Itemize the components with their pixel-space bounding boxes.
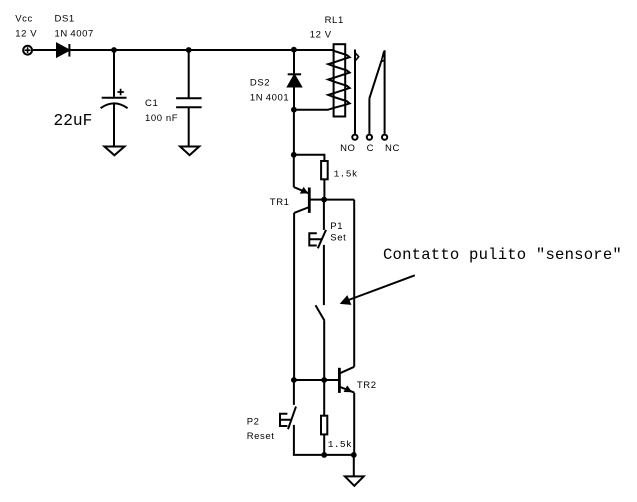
annotation arrow to sensor contact xyxy=(340,275,415,305)
ground (22uF) xyxy=(104,147,124,156)
svg-text:NC: NC xyxy=(385,143,400,154)
terminal C xyxy=(367,135,372,140)
wire right rail down to TR2 collector xyxy=(353,200,355,367)
node junction TR2 emitter / bottom rail xyxy=(351,452,357,458)
relay contact C arm (moving blade) xyxy=(369,51,384,134)
terminal NC xyxy=(382,135,387,140)
svg-text:TR2: TR2 xyxy=(357,380,377,391)
wire TR2 emitter down xyxy=(353,393,355,455)
wire base node to right rail xyxy=(324,199,354,201)
svg-text:1.5k: 1.5k xyxy=(328,439,352,450)
wire Vcc to DS1 xyxy=(32,49,57,51)
wire sensor contact to TR2 base node xyxy=(323,321,325,381)
svg-text:DS2: DS2 xyxy=(250,77,270,88)
svg-text:TR1: TR1 xyxy=(270,197,290,208)
diode DS2 xyxy=(288,74,301,86)
svg-text:100 nF: 100 nF xyxy=(145,113,178,124)
node junction V+ / TR1 emitter / R1 xyxy=(291,152,297,158)
wire P1 to sensor contact xyxy=(323,245,325,305)
svg-text:12 V: 12 V xyxy=(310,30,332,41)
relay RL1 coil xyxy=(294,44,350,116)
wire bottom rail xyxy=(293,454,354,456)
svg-text:C1: C1 xyxy=(145,98,158,109)
svg-text:1N 4001: 1N 4001 xyxy=(250,92,289,103)
wire R2 branch xyxy=(323,380,325,416)
pushbutton P2 (Reset) xyxy=(280,407,296,430)
svg-text:DS1: DS1 xyxy=(55,14,75,25)
svg-text:Vcc: Vcc xyxy=(15,14,33,25)
node junction rail/DS2 xyxy=(291,47,297,53)
Vcc terminal xyxy=(23,46,32,55)
wire R2 bottom xyxy=(323,434,325,455)
node junction DS2/coil bottom xyxy=(291,107,297,113)
svg-text:1.5k: 1.5k xyxy=(334,169,358,180)
capacitor 22uF (polarized) xyxy=(101,89,128,108)
svg-text:Reset: Reset xyxy=(247,431,275,442)
svg-text:C: C xyxy=(367,143,374,154)
svg-text:P2: P2 xyxy=(247,417,260,428)
wire P2 branch down xyxy=(293,380,295,405)
node junction rail/C1 xyxy=(186,47,192,53)
relay contact NO arm xyxy=(355,50,359,134)
pushbutton P1 (Set) xyxy=(309,230,326,248)
wire rail to 22uF cap xyxy=(113,50,115,97)
svg-text:P1: P1 xyxy=(330,221,343,232)
node junction sensor line / R2 xyxy=(321,377,327,383)
wire base node down to P1 xyxy=(323,200,325,230)
svg-text:RL1: RL1 xyxy=(325,15,344,26)
switch contact "sensore" xyxy=(316,305,325,320)
resistor R1 xyxy=(321,161,328,179)
resistor R2 xyxy=(321,416,327,435)
wire junction to R1 top xyxy=(294,155,325,161)
svg-text:Contatto pulito "sensore": Contatto pulito "sensore" xyxy=(383,246,622,264)
svg-text:12 V: 12 V xyxy=(15,28,37,39)
node junction TR1 collector / P2 xyxy=(291,377,297,383)
wire R1 bottom to base node xyxy=(323,179,325,199)
ground (bottom) xyxy=(345,476,364,485)
svg-text:Set: Set xyxy=(330,233,346,244)
svg-text:NO: NO xyxy=(340,143,355,154)
capacitor C1 xyxy=(176,98,202,107)
transistor TR1 (PNP) xyxy=(294,155,324,213)
wire TR2 base rail xyxy=(294,379,339,381)
node junction base TR1 / R1 / P1 / right wire xyxy=(321,197,327,203)
wire C1 to ground xyxy=(188,107,190,146)
transistor TR2 (NPN) xyxy=(339,367,354,393)
node junction R2 / bottom rail xyxy=(321,452,327,458)
wire 22uF to ground xyxy=(113,104,115,147)
terminal NO xyxy=(352,135,357,140)
ground (C1) xyxy=(180,147,199,156)
node junction rail/22uF xyxy=(111,47,117,53)
wire top rail xyxy=(69,50,334,52)
wire rail to C1 xyxy=(188,50,190,98)
svg-text:22uF: 22uF xyxy=(54,112,93,130)
wire P2 to bottom rail xyxy=(293,425,295,455)
relay contact NC arm xyxy=(384,50,386,134)
wire rail down to DS2 xyxy=(293,50,295,110)
wire to ground xyxy=(353,455,355,477)
wire DS2 junction down to TR1 node xyxy=(293,110,295,155)
svg-text:1N 4007: 1N 4007 xyxy=(55,28,94,39)
wire TR1 collector down to TR2 base node xyxy=(293,213,295,380)
diode DS1 xyxy=(57,44,69,57)
